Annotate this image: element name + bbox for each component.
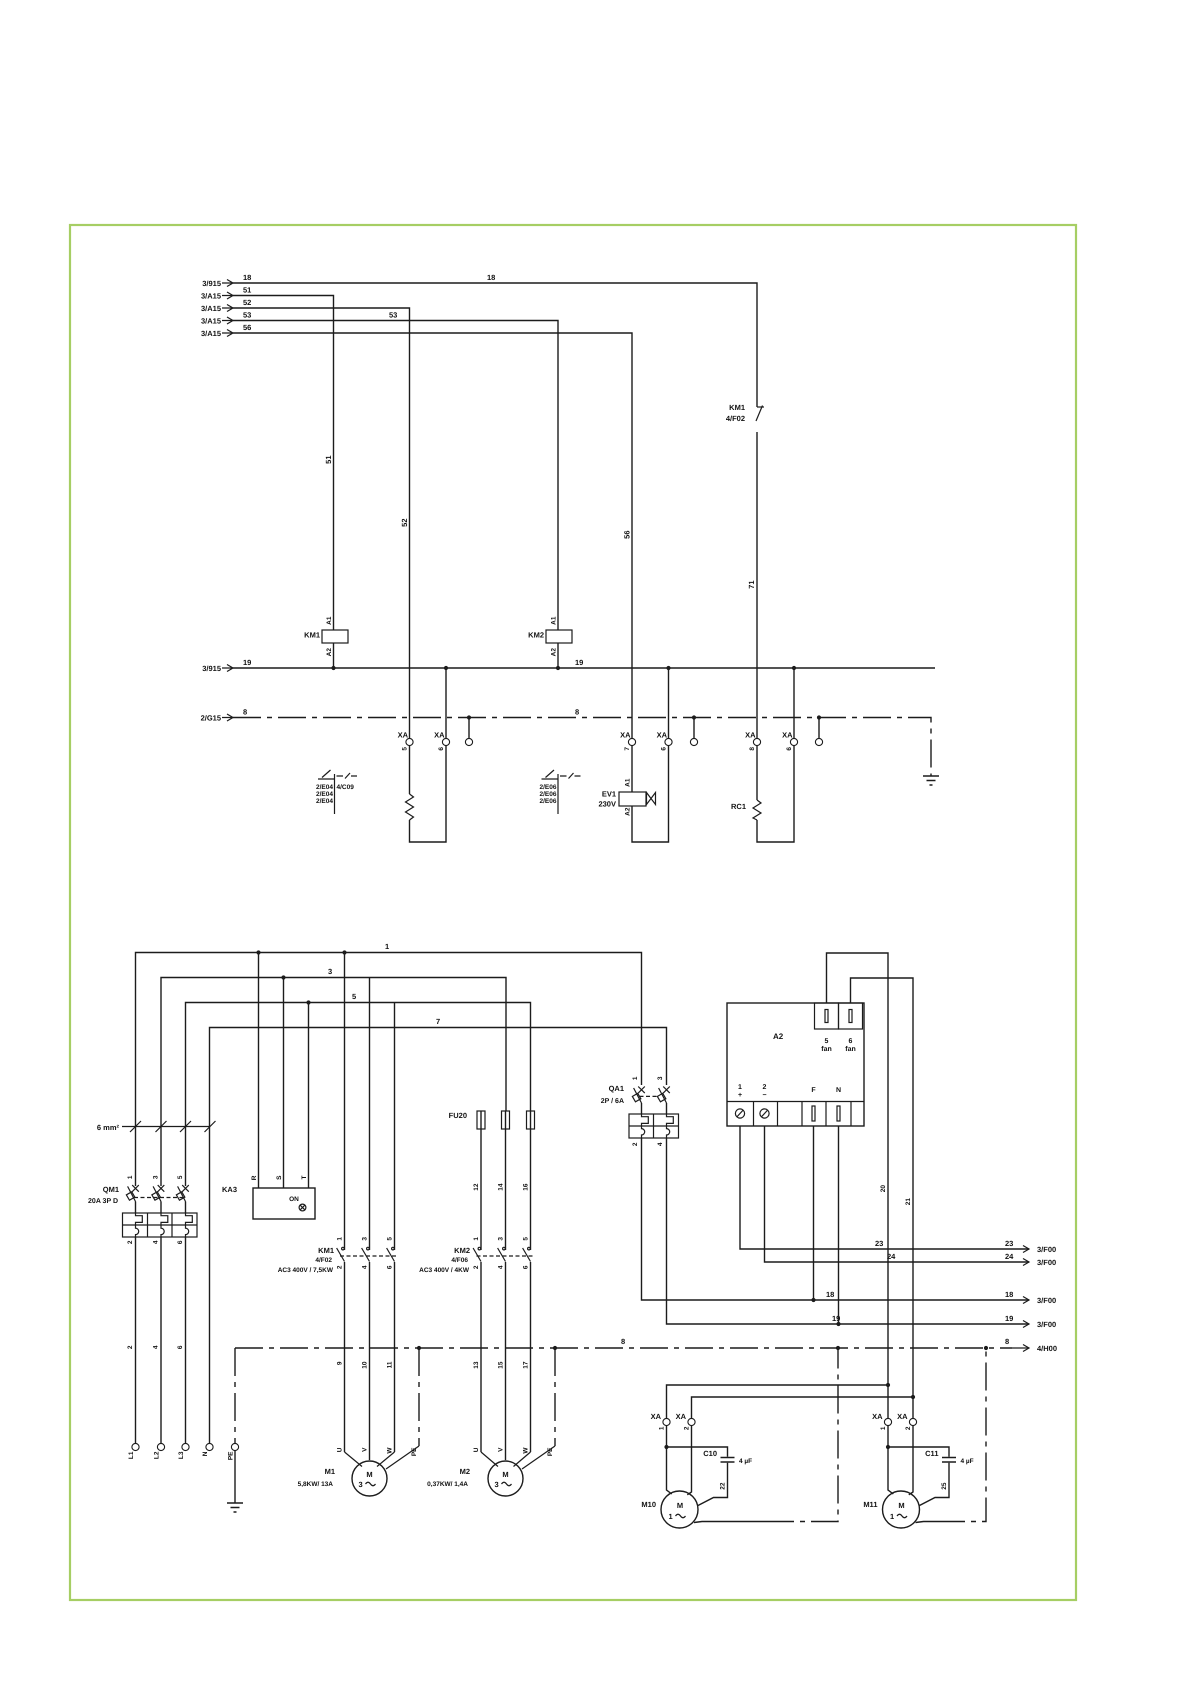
svg-text:FU20: FU20 xyxy=(449,1111,467,1120)
svg-text:N: N xyxy=(202,1451,209,1456)
svg-text:4/F02: 4/F02 xyxy=(726,414,745,423)
source arrow 3/A15 line 51 xyxy=(201,292,233,301)
wire 23 xyxy=(740,1126,1056,1254)
svg-text:L3: L3 xyxy=(178,1451,185,1459)
wire 51 xyxy=(233,286,334,631)
svg-text:M: M xyxy=(502,1470,508,1479)
svg-text:3/F00: 3/F00 xyxy=(1037,1320,1056,1329)
svg-text:17: 17 xyxy=(523,1361,530,1369)
svg-text:C11: C11 xyxy=(925,1449,938,1458)
svg-text:2: 2 xyxy=(905,1426,912,1430)
svg-text:XA: XA xyxy=(657,731,668,740)
svg-text:11: 11 xyxy=(387,1361,394,1368)
svg-text:6 mm²: 6 mm² xyxy=(97,1123,120,1132)
svg-text:4/F06: 4/F06 xyxy=(451,1257,468,1264)
contact KM1 4/F02 xyxy=(726,403,764,423)
svg-text:W: W xyxy=(387,1447,394,1454)
svg-text:5: 5 xyxy=(387,1237,394,1241)
svg-text:4/H00: 4/H00 xyxy=(1037,1344,1057,1353)
svg-text:AC3 400V / 7,5KW: AC3 400V / 7,5KW xyxy=(278,1267,334,1274)
svg-text:1: 1 xyxy=(632,1076,639,1080)
svg-text:4: 4 xyxy=(153,1345,160,1349)
svg-text:1: 1 xyxy=(473,1237,480,1241)
wire A2-N xyxy=(838,1126,840,1324)
svg-text:8: 8 xyxy=(243,708,247,717)
junction M11 cap tap xyxy=(886,1445,890,1449)
terminal L3 xyxy=(178,1443,189,1459)
svg-text:0,37KW/ 1,4A: 0,37KW/ 1,4A xyxy=(427,1481,468,1488)
wire 21 xyxy=(851,978,914,1418)
wire 18 lower xyxy=(642,1138,1057,1305)
svg-text:1: 1 xyxy=(659,1426,666,1430)
svg-text:8: 8 xyxy=(1005,1337,1009,1346)
svg-text:PE: PE xyxy=(547,1447,554,1456)
svg-text:18: 18 xyxy=(487,273,495,282)
breaker QA1 2P / 6A xyxy=(601,1076,679,1146)
wire 16 xyxy=(523,1129,531,1250)
svg-text:3: 3 xyxy=(359,1480,363,1489)
svg-text:M10: M10 xyxy=(641,1500,656,1509)
svg-text:53: 53 xyxy=(243,311,251,320)
source arrow 3/F15 line 19 xyxy=(202,664,233,673)
svg-text:5: 5 xyxy=(177,1175,184,1179)
svg-text:3/915: 3/915 xyxy=(202,664,221,673)
svg-text:M11: M11 xyxy=(863,1500,877,1509)
svg-text:3: 3 xyxy=(657,1076,664,1080)
source arrow 3/A15 line 53 xyxy=(201,317,233,326)
wire M10 XA1 down xyxy=(667,1426,672,1494)
svg-text:18: 18 xyxy=(243,273,251,282)
svg-text:5: 5 xyxy=(523,1237,530,1241)
svg-text:4: 4 xyxy=(362,1265,369,1269)
XA terminal 6 (valve group) xyxy=(657,668,673,751)
svg-text:V: V xyxy=(498,1447,505,1452)
fuse group FU20 xyxy=(449,1111,535,1129)
wire KM1 A2 xyxy=(333,643,335,668)
junction 19/XA6c xyxy=(792,666,796,670)
wire 9 xyxy=(337,1262,345,1452)
svg-text:20: 20 xyxy=(880,1185,887,1193)
svg-text:53: 53 xyxy=(389,311,397,320)
wire 14 xyxy=(498,1129,506,1250)
wire M11 XA1 down xyxy=(888,1426,893,1494)
green drawing frame xyxy=(70,225,1076,1600)
svg-text:M2: M2 xyxy=(460,1467,470,1476)
svg-text:XA: XA xyxy=(434,731,445,740)
wire M2 PE xyxy=(522,1348,555,1469)
svg-text:EV1: EV1 xyxy=(602,790,616,799)
svg-text:XA: XA xyxy=(620,731,631,740)
svg-text:A2: A2 xyxy=(625,807,632,816)
bus line 3 xyxy=(161,967,506,1186)
svg-text:2: 2 xyxy=(337,1265,344,1269)
svg-text:51: 51 xyxy=(324,456,333,464)
svg-text:1: 1 xyxy=(738,1084,742,1091)
svg-text:6: 6 xyxy=(387,1265,394,1269)
svg-text:1: 1 xyxy=(880,1426,887,1430)
svg-text:4 µF: 4 µF xyxy=(961,1458,974,1465)
wire 19 top bus xyxy=(233,658,935,668)
svg-text:M: M xyxy=(898,1501,904,1510)
svg-text:KA3: KA3 xyxy=(222,1185,237,1194)
contactor KM1 main contacts xyxy=(278,953,397,1275)
svg-text:QA1: QA1 xyxy=(609,1084,624,1093)
junction 8/M10-PE xyxy=(836,1346,840,1350)
junction M10 cap tap xyxy=(664,1445,668,1449)
svg-text:A1: A1 xyxy=(625,778,632,787)
svg-text:KM2: KM2 xyxy=(454,1246,470,1255)
svg-text:S: S xyxy=(276,1175,283,1180)
svg-text:3/A15: 3/A15 xyxy=(201,292,221,301)
svg-text:19: 19 xyxy=(1005,1314,1013,1323)
bus line 1 xyxy=(136,942,642,1186)
svg-text:C10: C10 xyxy=(703,1449,717,1458)
svg-text:24: 24 xyxy=(1005,1252,1014,1261)
wire 8 lower PE bus xyxy=(235,1337,1057,1353)
wire 56 xyxy=(233,323,632,738)
motor M10 xyxy=(641,1491,698,1528)
svg-text:19: 19 xyxy=(575,658,583,667)
svg-text:230V: 230V xyxy=(598,800,616,809)
breaker QM1 20A 3P D xyxy=(88,1175,197,1244)
svg-text:2/E04: 2/E04 xyxy=(316,784,333,791)
controller module A2 xyxy=(727,1003,864,1126)
svg-text:12: 12 xyxy=(473,1183,480,1191)
terminal L2 xyxy=(154,1443,165,1459)
wire 8 top PE bus xyxy=(233,708,931,777)
svg-text:1: 1 xyxy=(127,1175,134,1179)
wire 19 lower xyxy=(667,1138,1057,1329)
svg-text:A2: A2 xyxy=(773,1032,784,1041)
junction 8/PE pigtail c xyxy=(817,715,821,719)
svg-text:fan: fan xyxy=(821,1045,832,1053)
svg-text:14: 14 xyxy=(498,1183,505,1191)
svg-text:fan: fan xyxy=(845,1045,856,1053)
wire PE drop to terminal xyxy=(234,1348,236,1443)
capacitor C10 4uF xyxy=(667,1447,753,1506)
svg-text:1: 1 xyxy=(890,1512,894,1521)
svg-text:51: 51 xyxy=(243,286,251,295)
source arrow 3/A15 line 52 xyxy=(201,304,233,313)
svg-text:56: 56 xyxy=(243,323,251,332)
svg-text:2/E06: 2/E06 xyxy=(540,784,557,791)
junction 8/M1-PE xyxy=(417,1346,421,1350)
svg-text:6: 6 xyxy=(661,747,668,751)
svg-text:6: 6 xyxy=(849,1038,853,1045)
svg-text:9: 9 xyxy=(337,1361,344,1365)
wire 18 xyxy=(233,273,757,407)
KM1 aux contact cross-reference xyxy=(316,770,357,814)
junction 21 split xyxy=(911,1395,915,1399)
wire 2 xyxy=(127,1237,136,1443)
svg-text:3/A15: 3/A15 xyxy=(201,304,221,313)
svg-text:2: 2 xyxy=(684,1426,691,1430)
junction 1/KA3-R xyxy=(256,950,260,954)
junction 19/A2-N xyxy=(836,1322,840,1326)
coil KM2 xyxy=(528,616,572,656)
svg-text:XA: XA xyxy=(897,1412,908,1421)
wire 24 xyxy=(765,1126,1057,1267)
svg-text:3: 3 xyxy=(328,967,332,976)
svg-text:V: V xyxy=(362,1447,369,1452)
svg-text:2/E06: 2/E06 xyxy=(540,798,557,805)
svg-text:52: 52 xyxy=(243,298,251,307)
svg-text:18: 18 xyxy=(826,1290,834,1299)
svg-text:3/A15: 3/A15 xyxy=(201,329,221,338)
source arrow 2/G15 line 8 xyxy=(201,714,233,723)
ground top right xyxy=(923,776,939,785)
junction 8/PE pigtail a xyxy=(467,715,471,719)
KM2 aux contact cross-reference xyxy=(540,770,581,814)
svg-text:16: 16 xyxy=(523,1183,530,1191)
wire 4 xyxy=(153,1237,162,1443)
svg-text:6: 6 xyxy=(177,1345,184,1349)
XA terminal 6 (RC group) xyxy=(782,668,798,751)
svg-text:4/F02: 4/F02 xyxy=(315,1257,332,1264)
svg-text:A2: A2 xyxy=(326,648,333,657)
capacitor C11 4uF xyxy=(888,1447,974,1506)
junction 1/KM1-pole1 xyxy=(342,950,346,954)
svg-text:3/F00: 3/F00 xyxy=(1037,1258,1056,1267)
svg-text:5: 5 xyxy=(402,747,409,751)
junction 8/PE pigtail b xyxy=(692,715,696,719)
svg-text:A1: A1 xyxy=(326,616,333,625)
fan motor group M10 xyxy=(651,1412,696,1430)
terminal L1 xyxy=(128,1443,139,1459)
svg-text:7: 7 xyxy=(436,1017,440,1026)
junction 5/KA3-T xyxy=(306,1000,310,1004)
svg-text:L2: L2 xyxy=(154,1451,161,1459)
svg-text:+: + xyxy=(738,1092,742,1099)
svg-text:AC3 400V / 4KW: AC3 400V / 4KW xyxy=(419,1267,470,1274)
svg-text:2: 2 xyxy=(127,1345,134,1349)
junction 19/KM1-A2 xyxy=(331,666,335,670)
svg-text:XA: XA xyxy=(745,731,756,740)
svg-text:L1: L1 xyxy=(128,1451,135,1459)
svg-text:5: 5 xyxy=(825,1038,829,1045)
svg-text:2: 2 xyxy=(763,1084,767,1091)
junction 18/A2-F xyxy=(811,1298,815,1302)
solenoid valve EV1 230V xyxy=(598,746,668,842)
wire M1 PE xyxy=(386,1348,419,1469)
svg-text:10: 10 xyxy=(362,1361,369,1369)
svg-text:PE: PE xyxy=(228,1451,235,1460)
terminal PE xyxy=(228,1443,239,1460)
wire 11 xyxy=(387,1262,395,1452)
svg-text:3/F00: 3/F00 xyxy=(1037,1296,1056,1305)
svg-text:XA: XA xyxy=(398,731,409,740)
svg-text:W: W xyxy=(523,1447,530,1454)
XA PE pigtail c xyxy=(815,718,822,746)
svg-text:2/G15: 2/G15 xyxy=(201,714,221,723)
svg-text:XA: XA xyxy=(676,1412,687,1421)
svg-text:2/E04: 2/E04 xyxy=(316,798,333,805)
svg-text:3: 3 xyxy=(153,1175,160,1179)
svg-text:8: 8 xyxy=(621,1337,625,1346)
wire 6 xyxy=(177,1237,186,1443)
svg-text:2: 2 xyxy=(127,1240,134,1244)
svg-text:T: T xyxy=(301,1175,308,1179)
svg-text:3/F00: 3/F00 xyxy=(1037,1245,1056,1254)
XA terminal 6 (heater group) xyxy=(434,668,450,751)
source arrow 3/A15 line 56 xyxy=(201,329,233,338)
junction 19/XA6b xyxy=(666,666,670,670)
terminal N xyxy=(202,1443,213,1456)
junction 8/M11-PE xyxy=(984,1346,988,1350)
svg-text:KM2: KM2 xyxy=(528,631,544,640)
svg-text:M: M xyxy=(677,1501,683,1510)
wire KM2 A2 xyxy=(557,643,559,668)
svg-text:1: 1 xyxy=(669,1512,673,1521)
svg-text:2/E04: 2/E04 xyxy=(316,791,333,798)
wire 10 xyxy=(362,1262,370,1460)
XA PE pigtail a xyxy=(465,718,472,746)
wire M11 XA2 down xyxy=(909,1426,913,1495)
svg-text:18: 18 xyxy=(1005,1290,1013,1299)
svg-text:4: 4 xyxy=(153,1240,160,1244)
svg-text:KM1: KM1 xyxy=(304,631,320,640)
svg-text:6: 6 xyxy=(523,1265,530,1269)
svg-text:3: 3 xyxy=(495,1480,499,1489)
svg-text:3: 3 xyxy=(362,1237,369,1241)
svg-text:21: 21 xyxy=(905,1198,912,1206)
wire M10 XA2 down xyxy=(687,1426,691,1495)
wire PE to ground xyxy=(234,1451,236,1503)
svg-text:ON: ON xyxy=(289,1196,299,1203)
junction 3/KA3-S xyxy=(281,975,285,979)
svg-text:2: 2 xyxy=(632,1142,639,1146)
svg-text:KM1: KM1 xyxy=(318,1246,334,1255)
bus line 7 neutral xyxy=(210,1017,667,1443)
wire M10 PE xyxy=(694,1522,766,1523)
svg-text:1: 1 xyxy=(337,1237,344,1241)
wire 15 xyxy=(498,1262,506,1460)
wire 13 xyxy=(473,1262,481,1452)
svg-text:M: M xyxy=(366,1470,372,1479)
svg-text:3/A15: 3/A15 xyxy=(201,317,221,326)
svg-text:13: 13 xyxy=(473,1361,480,1369)
svg-text:23: 23 xyxy=(1005,1239,1013,1248)
resistor heater load xyxy=(406,746,447,842)
svg-text:4/C09: 4/C09 xyxy=(337,784,355,791)
svg-text:XA: XA xyxy=(782,731,793,740)
svg-text:M1: M1 xyxy=(325,1467,335,1476)
svg-text:F: F xyxy=(811,1087,816,1094)
motor M1 xyxy=(298,1447,395,1496)
junction 19/KM2-A2 xyxy=(556,666,560,670)
svg-text:19: 19 xyxy=(243,658,251,667)
svg-text:XA: XA xyxy=(651,1412,662,1421)
svg-text:52: 52 xyxy=(400,519,409,527)
svg-text:4: 4 xyxy=(657,1142,664,1146)
svg-text:1: 1 xyxy=(385,942,389,951)
svg-text:3/915: 3/915 xyxy=(202,279,221,288)
relay module KA3 xyxy=(222,953,315,1220)
junction 8/M2-PE xyxy=(553,1346,557,1350)
fan motor group M11 xyxy=(872,1412,917,1430)
svg-text:71: 71 xyxy=(747,581,756,589)
wire 17 xyxy=(523,1262,531,1452)
svg-text:25: 25 xyxy=(941,1482,948,1490)
wire 21 to M10 xyxy=(692,1397,914,1418)
svg-text:56: 56 xyxy=(623,531,632,539)
svg-text:15: 15 xyxy=(498,1361,505,1369)
svg-text:6: 6 xyxy=(786,747,793,751)
cable section marker 6 mm2 xyxy=(97,1121,216,1132)
bus line 5 xyxy=(186,992,531,1186)
svg-text:A1: A1 xyxy=(551,616,558,625)
svg-text:−: − xyxy=(762,1092,766,1099)
ground bottom left xyxy=(227,1503,243,1512)
svg-text:7: 7 xyxy=(624,747,631,751)
svg-text:QM1: QM1 xyxy=(103,1185,119,1194)
svg-text:6: 6 xyxy=(177,1240,184,1244)
svg-text:8: 8 xyxy=(749,747,756,751)
wire M11 PE xyxy=(916,1522,938,1523)
XA terminal 5 xyxy=(398,731,414,751)
svg-text:3: 3 xyxy=(498,1237,505,1241)
wire 71 xyxy=(747,432,757,738)
coil KM1 xyxy=(304,616,348,656)
RC suppressor RC1 xyxy=(731,746,794,842)
svg-text:6: 6 xyxy=(438,747,445,751)
svg-text:A2: A2 xyxy=(551,648,558,657)
junction 19/XA6a xyxy=(444,666,448,670)
svg-text:N: N xyxy=(836,1087,841,1094)
svg-text:XA: XA xyxy=(872,1412,883,1421)
source arrow 3/F15 line 18 xyxy=(202,279,233,288)
XA PE pigtail b xyxy=(690,718,697,746)
svg-text:U: U xyxy=(337,1447,344,1452)
svg-text:4: 4 xyxy=(498,1265,505,1269)
svg-text:23: 23 xyxy=(875,1239,883,1248)
svg-text:8: 8 xyxy=(575,708,579,717)
wire 52 xyxy=(233,298,410,738)
svg-text:U: U xyxy=(473,1447,480,1452)
svg-text:PE: PE xyxy=(411,1447,418,1456)
svg-text:R: R xyxy=(251,1175,258,1180)
junction 20 split xyxy=(886,1383,890,1387)
svg-text:5: 5 xyxy=(352,992,356,1001)
wire 53 xyxy=(233,311,558,631)
wire 20 to M10 xyxy=(667,1385,889,1418)
svg-text:KM1: KM1 xyxy=(729,403,745,412)
svg-text:2P / 6A: 2P / 6A xyxy=(601,1097,624,1105)
XA terminal 7 xyxy=(620,731,636,751)
motor M2 xyxy=(427,1447,530,1496)
motor M11 xyxy=(863,1491,919,1528)
svg-text:2/E06: 2/E06 xyxy=(540,791,557,798)
wire 12 xyxy=(473,1129,481,1250)
svg-text:RC1: RC1 xyxy=(731,802,746,811)
svg-text:5,8KW/ 13A: 5,8KW/ 13A xyxy=(298,1481,334,1488)
svg-text:2: 2 xyxy=(473,1265,480,1269)
svg-text:4 µF: 4 µF xyxy=(739,1458,752,1465)
wire 20 xyxy=(827,953,889,1418)
XA terminal 8 xyxy=(745,731,761,751)
svg-text:20A 3P D: 20A 3P D xyxy=(88,1198,118,1205)
contactor KM2 main contacts xyxy=(419,1237,533,1274)
wire A2-F xyxy=(813,1126,815,1300)
svg-text:22: 22 xyxy=(720,1482,727,1490)
